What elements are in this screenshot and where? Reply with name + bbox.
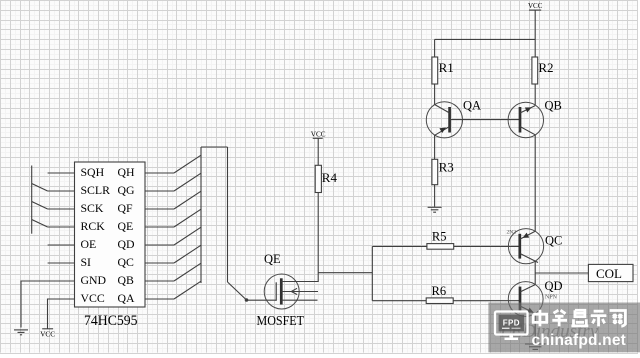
resistor R1 — [432, 57, 438, 84]
svg-text:R4: R4 — [322, 170, 338, 185]
wire VCC pin to power — [48, 299, 75, 329]
wire to COL — [535, 272, 588, 274]
junction gate node — [245, 298, 249, 302]
wire QE stub — [145, 226, 174, 228]
svg-text:QC: QC — [545, 234, 562, 248]
wire bus top bar — [201, 146, 228, 148]
wire QG diagonal — [174, 173, 201, 191]
resistor R5 — [427, 244, 454, 250]
ground (left, 74HC595 GND) — [14, 330, 28, 335]
IC U1 pin labels left column — [81, 165, 111, 305]
wire left bus vertical — [31, 166, 33, 234]
ground (under R3) — [428, 207, 442, 212]
svg-text:QH: QH — [118, 165, 136, 179]
svg-text:R1: R1 — [439, 60, 454, 75]
power VCC (left, 74HC595 VCC) — [40, 329, 55, 339]
svg-text:SQH: SQH — [81, 165, 105, 179]
wire QD emitter to ground — [534, 314, 536, 344]
svg-text:R5: R5 — [432, 230, 447, 244]
wire QB emitter down to QC — [534, 135, 536, 232]
svg-text:SI: SI — [81, 255, 92, 269]
svg-text:NPN: NPN — [545, 295, 558, 301]
svg-text:chinafpd.net: chinafpd.net — [532, 332, 627, 349]
IC U1 74HC595 body — [75, 162, 146, 307]
resistor R2 — [532, 57, 538, 84]
svg-text:SCK: SCK — [81, 201, 104, 215]
svg-text:QD: QD — [118, 237, 136, 251]
wire R1 to QA collector — [434, 84, 436, 105]
svg-text:QA: QA — [118, 291, 136, 305]
wire R3 to ground — [434, 185, 436, 207]
transistor QB — [508, 102, 543, 137]
svg-text:R6: R6 — [432, 284, 447, 298]
wire OE stub — [48, 244, 75, 246]
svg-text:FPD: FPD — [503, 319, 520, 328]
svg-text:QB: QB — [545, 99, 562, 113]
wire SCLR stub — [48, 190, 75, 192]
svg-text:OE: OE — [81, 237, 97, 251]
svg-text:VCC: VCC — [40, 330, 55, 338]
transistor QC — [508, 229, 543, 264]
svg-text:RCK: RCK — [81, 219, 106, 233]
wire bus drop diagonal to gate node — [228, 282, 247, 300]
svg-text:QD: QD — [545, 279, 563, 293]
wire SI stub — [48, 262, 75, 264]
wire QB stub — [145, 280, 174, 282]
wire QC diagonal — [174, 245, 201, 263]
svg-text:2N2: 2N2 — [507, 230, 517, 236]
svg-text:QE: QE — [118, 219, 134, 233]
transistor QA — [426, 102, 462, 160]
wire QG stub — [145, 190, 174, 192]
wire split vertical — [371, 246, 373, 300]
wire SCK stub — [48, 208, 75, 210]
wire QH stub — [145, 172, 174, 174]
wire SCK bus entry diagonal — [32, 202, 48, 210]
wire QE diagonal — [174, 209, 201, 227]
IC U1 pin labels right column — [118, 165, 136, 305]
wire SCLR bus entry diagonal — [32, 184, 48, 192]
svg-text:VCC: VCC — [311, 131, 326, 139]
watermark band — [488, 303, 640, 353]
wire R4 to MOSFET drain — [317, 193, 319, 282]
power VCC (top rail) — [528, 2, 543, 57]
node COL box — [588, 264, 633, 281]
wire split to R6 — [372, 300, 426, 302]
resistor R4 — [315, 165, 321, 192]
svg-text:GND: GND — [81, 273, 107, 287]
svg-text:QG: QG — [118, 183, 136, 197]
resistor R3 — [432, 159, 438, 184]
wire bus drop vertical — [227, 147, 229, 282]
svg-text:74HC595: 74HC595 — [84, 313, 138, 329]
svg-text:QF: QF — [118, 201, 134, 215]
wire QH diagonal — [174, 155, 201, 173]
wire QA base to QB base — [450, 119, 520, 121]
ground (under QD) — [525, 344, 545, 349]
transistor QD — [508, 282, 543, 317]
svg-text:R2: R2 — [538, 60, 553, 75]
power VCC (R4 top) — [311, 131, 326, 166]
wire QA diagonal — [174, 281, 201, 299]
wire QC stub — [145, 262, 174, 264]
wire QD diagonal — [174, 227, 201, 245]
resistor R6 — [426, 298, 453, 304]
wire QA stub — [145, 298, 174, 300]
wire QD stub — [145, 244, 174, 246]
wire R5 to QC base — [454, 245, 520, 247]
watermark chinese characters — [533, 310, 625, 327]
wire VCC to R4 — [317, 138, 319, 165]
wire QC to QD — [534, 261, 536, 284]
wire top rail — [435, 38, 536, 40]
svg-text:SCLR: SCLR — [81, 183, 111, 197]
wire QB diagonal — [174, 263, 201, 281]
wire SQH stub — [48, 172, 75, 174]
svg-text:R3: R3 — [439, 160, 454, 175]
svg-text:QE: QE — [264, 252, 281, 266]
wire VCC drop to R2 — [534, 10, 536, 57]
wire drain node to R5 R6 split — [318, 272, 372, 274]
wire QF stub — [145, 208, 174, 210]
wire split to R5 — [372, 245, 427, 247]
svg-text:QA: QA — [463, 99, 481, 113]
svg-text:MOSFET: MOSFET — [257, 314, 305, 329]
svg-text:VCC: VCC — [528, 2, 543, 10]
wire rail to R1 — [434, 39, 436, 57]
svg-text:VCC: VCC — [81, 291, 105, 305]
wire QF diagonal — [174, 191, 201, 209]
wire RCK bus entry diagonal — [32, 220, 48, 228]
wire GND pin to ground — [21, 281, 75, 328]
transistor QE MOSFET — [264, 274, 319, 309]
svg-text:COL: COL — [596, 266, 622, 281]
wire right bus vertical — [200, 147, 202, 283]
svg-text:QB: QB — [118, 273, 135, 287]
wire RCK stub — [48, 226, 75, 228]
svg-text:QC: QC — [118, 255, 135, 269]
wire R2 to QB — [534, 84, 536, 106]
watermark FPD icon — [495, 312, 528, 341]
wire gate node to MOSFET gate — [247, 299, 277, 301]
wire R6 to QD base — [453, 300, 520, 302]
